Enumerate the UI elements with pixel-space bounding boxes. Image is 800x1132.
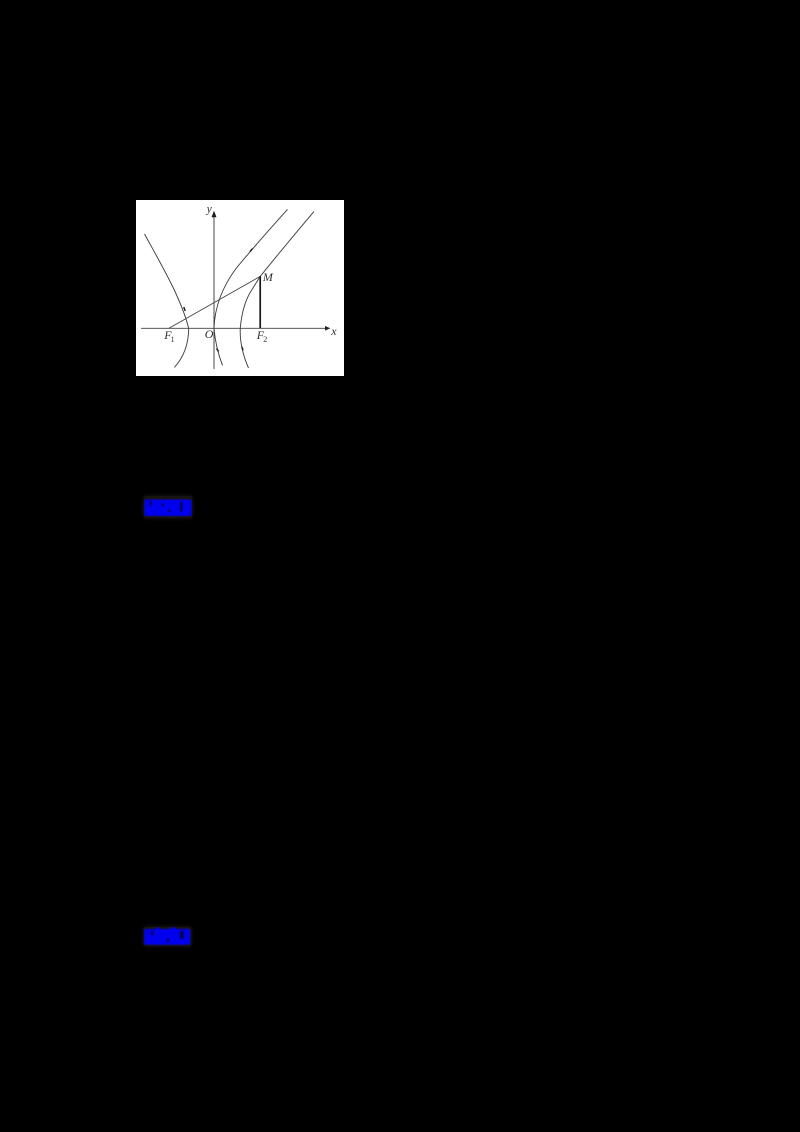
svg-text:M: M	[262, 270, 274, 284]
segment M-F2 (thick)	[259, 276, 261, 328]
y-axis arrowhead	[212, 211, 217, 217]
svg-text:O: O	[205, 327, 214, 341]
hyperbola left branch	[145, 234, 189, 367]
parabola upper	[214, 209, 288, 328]
labels	[163, 204, 337, 344]
y-axis	[213, 217, 215, 369]
blue label 1	[144, 496, 192, 518]
line F1 to M	[169, 276, 260, 328]
svg-text:x: x	[330, 324, 337, 338]
svg-text:1: 1	[171, 335, 175, 344]
x-axis arrowhead	[325, 326, 330, 331]
figure: hyperbola / parabola diagram	[136, 200, 344, 376]
hyperbola right branch	[240, 211, 314, 368]
blue label 2	[144, 927, 191, 946]
svg-text:y: y	[206, 204, 212, 216]
x-axis	[141, 327, 326, 329]
parabola lower	[214, 328, 223, 365]
svg-text:2: 2	[263, 335, 267, 344]
curve direction ticks	[184, 249, 253, 352]
